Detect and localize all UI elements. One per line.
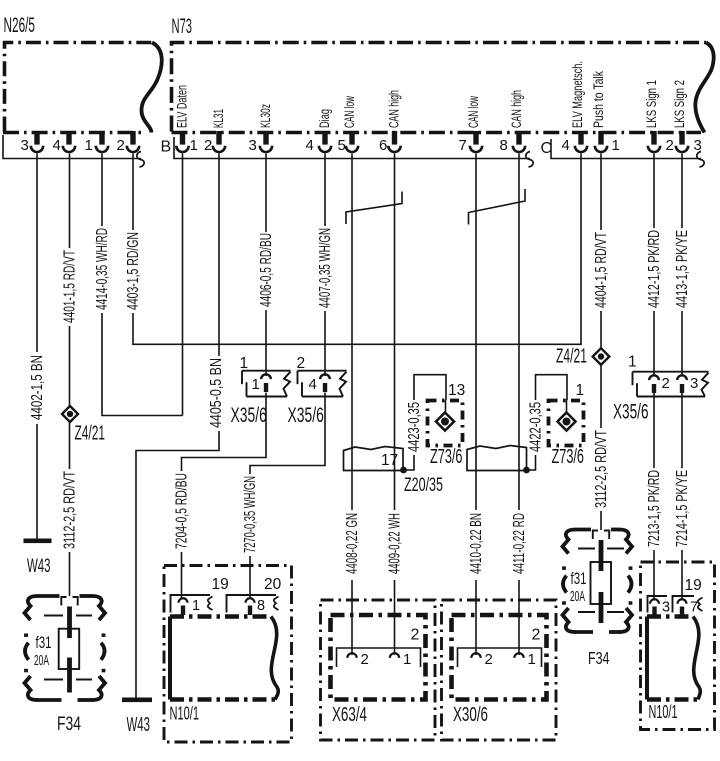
svg-text:19: 19 bbox=[685, 577, 702, 594]
svg-text:2: 2 bbox=[361, 651, 369, 668]
svg-text:4402-1,5 BN: 4402-1,5 BN bbox=[29, 355, 46, 420]
splice Z4/21 bbox=[62, 406, 105, 445]
junction dot Z20/35 right bbox=[523, 467, 530, 474]
svg-text:1: 1 bbox=[192, 598, 200, 614]
N73 pin label CAN high bbox=[509, 90, 524, 128]
N73 pin label CAN low bbox=[466, 96, 481, 128]
svg-text:4408-0,22 GN: 4408-0,22 GN bbox=[344, 513, 361, 574]
N73 pin B6 bbox=[379, 131, 401, 154]
svg-text:Push to Talk: Push to Talk bbox=[591, 71, 606, 128]
svg-text:3112-2,5 RD/VT: 3112-2,5 RD/VT bbox=[593, 430, 610, 508]
svg-text:2: 2 bbox=[666, 137, 674, 154]
svg-text:7: 7 bbox=[690, 600, 698, 616]
svg-text:6: 6 bbox=[379, 137, 387, 154]
svg-text:ELV Daten: ELV Daten bbox=[175, 85, 190, 128]
svg-text:X35/6: X35/6 bbox=[231, 403, 267, 427]
wire 4422-0,35 bbox=[527, 402, 544, 470]
N73 pin label ELV Magnetsch. bbox=[570, 61, 585, 128]
svg-text:4405-0,5 BN: 4405-0,5 BN bbox=[208, 358, 225, 428]
wire 4402-1,5 BN bbox=[29, 154, 46, 540]
wire 4403-1,5 RD/GN bbox=[125, 154, 581, 345]
svg-text:2: 2 bbox=[532, 627, 541, 644]
N73 pin B3 bbox=[249, 131, 273, 154]
wire 4404-1,5 RD/VT bbox=[593, 154, 610, 349]
svg-text:4411-0,22 RD: 4411-0,22 RD bbox=[511, 513, 528, 574]
N73 pin B8 bbox=[500, 131, 526, 154]
svg-text:W43: W43 bbox=[27, 555, 51, 577]
svg-text:8: 8 bbox=[500, 137, 508, 154]
connector X35/6 right bbox=[613, 354, 709, 424]
svg-text:17: 17 bbox=[381, 452, 398, 469]
wire 4406-0,5 RD/BU bbox=[258, 154, 275, 377]
N73 pin B1 bbox=[176, 131, 198, 154]
svg-text:4: 4 bbox=[309, 376, 317, 393]
twisted pair symbol CAN 1 bbox=[346, 192, 402, 225]
svg-text:2: 2 bbox=[662, 375, 670, 392]
N10/1 right socket 19 contacts 3 and 7 bbox=[648, 577, 703, 616]
svg-text:4: 4 bbox=[306, 137, 314, 154]
wire 4414-0,35 WH/RD bbox=[94, 154, 183, 416]
svg-text:1: 1 bbox=[576, 382, 585, 399]
svg-text:f31: f31 bbox=[36, 633, 52, 652]
wire 4407-0,35 WH/GN bbox=[317, 154, 334, 377]
svg-text:CAN low: CAN low bbox=[466, 96, 481, 128]
svg-text:1: 1 bbox=[240, 355, 249, 372]
wire 4405-0,5 BN bbox=[136, 154, 225, 698]
svg-text:4404-1,5 RD/VT: 4404-1,5 RD/VT bbox=[593, 232, 610, 308]
fuse F31 20A left bbox=[34, 597, 92, 693]
svg-text:N10/1: N10/1 bbox=[649, 702, 678, 722]
splice Z73/6 right (1) bbox=[536, 375, 585, 468]
svg-text:4409-0,22 WH: 4409-0,22 WH bbox=[386, 513, 403, 574]
svg-text:CAN high: CAN high bbox=[387, 90, 402, 128]
wire 4410-0,22 BN bbox=[468, 154, 485, 656]
svg-text:4410-0,22 BN: 4410-0,22 BN bbox=[468, 513, 485, 574]
svg-text:4: 4 bbox=[53, 137, 61, 154]
N26/5 pin 4 bbox=[53, 131, 76, 154]
wire 7204-0,5 RD/BU bbox=[173, 393, 266, 600]
twisted pair symbol CAN 2 bbox=[469, 189, 526, 225]
N26/5 pin 2 bbox=[117, 131, 140, 154]
svg-text:KL31: KL31 bbox=[211, 109, 226, 128]
svg-text:B: B bbox=[161, 139, 172, 156]
N73 pin C2 bbox=[648, 131, 674, 154]
label Z20/35 bbox=[404, 474, 443, 496]
svg-text:W43: W43 bbox=[127, 713, 151, 736]
svg-text:3: 3 bbox=[694, 137, 702, 154]
N73 pin label CAN high bbox=[387, 90, 402, 128]
svg-text:4407-0,35 WH/GN: 4407-0,35 WH/GN bbox=[317, 228, 334, 308]
svg-text:X63/4: X63/4 bbox=[332, 703, 367, 726]
svg-text:2: 2 bbox=[204, 137, 212, 154]
N26/5 pin 1 bbox=[85, 131, 109, 154]
N73 pin B7 bbox=[459, 131, 483, 154]
svg-text:4: 4 bbox=[562, 137, 570, 154]
wire 7214-1,5 PK/YE bbox=[674, 393, 691, 599]
svg-text:2: 2 bbox=[117, 137, 125, 154]
shield Z20/35 box 17 bbox=[344, 447, 404, 471]
svg-text:F34: F34 bbox=[57, 713, 81, 735]
wire ELV Daten B1 bbox=[182, 154, 184, 416]
connector X30/6 bbox=[442, 600, 557, 740]
junction dot Z20/35 left bbox=[400, 467, 407, 474]
splice Z4/21 right bbox=[556, 345, 609, 368]
svg-text:7270-0,35 WH/GN: 7270-0,35 WH/GN bbox=[242, 476, 259, 553]
wire 4412-1,5 PK/RD bbox=[646, 154, 663, 377]
svg-text:Z4/21: Z4/21 bbox=[556, 345, 587, 368]
svg-text:N73: N73 bbox=[172, 15, 193, 38]
svg-text:4406-0,5 RD/BU: 4406-0,5 RD/BU bbox=[258, 233, 275, 307]
svg-text:7213-1,5 PK/RD: 7213-1,5 PK/RD bbox=[646, 470, 663, 547]
N73 pin B5 bbox=[338, 131, 359, 154]
N10/1 right inner box bbox=[647, 617, 700, 723]
svg-text:4412-1,5 PK/RD: 4412-1,5 PK/RD bbox=[646, 230, 663, 308]
splice Z73/6 left (13) bbox=[414, 375, 465, 468]
ground W43 left bbox=[24, 539, 52, 578]
connector X35/6 contact 4 bbox=[288, 355, 347, 427]
N10/1 left socket 19 contact 1 bbox=[171, 576, 229, 615]
control unit N26/5 box bbox=[3, 14, 162, 133]
N73 pin label LKS Sign 1 bbox=[644, 80, 659, 128]
svg-text:1: 1 bbox=[403, 651, 411, 668]
svg-text:1: 1 bbox=[252, 376, 260, 393]
wire 3112-2,5 RD/VT right bbox=[593, 365, 610, 530]
N73 pin label Push to Talk bbox=[591, 71, 606, 128]
N73 pin label Diag bbox=[317, 109, 332, 128]
svg-text:2: 2 bbox=[485, 651, 493, 668]
svg-text:3: 3 bbox=[662, 600, 670, 616]
svg-text:3: 3 bbox=[249, 137, 257, 154]
shield Z20/35 box right bbox=[467, 446, 527, 471]
svg-text:1: 1 bbox=[528, 651, 536, 668]
wire 4401-1,5 RD/VT bbox=[61, 154, 78, 406]
svg-text:4414-0,35 WH/RD: 4414-0,35 WH/RD bbox=[94, 228, 111, 310]
N73 connector bracket C bbox=[541, 139, 705, 167]
svg-text:Z73/6: Z73/6 bbox=[552, 445, 585, 468]
svg-text:LKS Sign 2: LKS Sign 2 bbox=[672, 80, 687, 128]
N26/5 connector bracket B-side bbox=[3, 135, 144, 167]
svg-text:Z73/6: Z73/6 bbox=[430, 445, 463, 468]
control unit N73 box bbox=[172, 15, 714, 133]
svg-text:N26/5: N26/5 bbox=[4, 14, 36, 37]
connector X63/4 bbox=[321, 600, 436, 740]
svg-text:13: 13 bbox=[448, 382, 465, 399]
svg-text:20A: 20A bbox=[34, 653, 49, 669]
svg-text:X35/6: X35/6 bbox=[613, 400, 649, 424]
svg-text:KL30z: KL30z bbox=[258, 104, 273, 128]
connector X35/6 contact 1 bbox=[231, 355, 291, 427]
svg-text:7214-1,5 PK/YE: 7214-1,5 PK/YE bbox=[674, 470, 691, 547]
svg-text:f31: f31 bbox=[571, 569, 587, 588]
svg-text:Diag: Diag bbox=[317, 109, 332, 128]
svg-text:1: 1 bbox=[612, 137, 620, 154]
svg-text:4413-1,5 PK/YE: 4413-1,5 PK/YE bbox=[674, 230, 691, 308]
wire 4408-0,22 GN bbox=[344, 154, 361, 656]
N73 pin label LKS Sign 2 bbox=[672, 80, 687, 128]
label F34 right bbox=[588, 648, 610, 668]
ground W43 right bbox=[122, 698, 152, 737]
wire 3112-2,5 RD/VT left bbox=[61, 423, 78, 597]
wire 4409-0,22 WH bbox=[386, 154, 403, 656]
svg-text:4422-0,35: 4422-0,35 bbox=[527, 402, 544, 452]
N73 pin label ELV Daten bbox=[175, 85, 190, 128]
N73 pin label KL31 bbox=[211, 109, 226, 128]
N73 connector bracket B bbox=[161, 137, 534, 167]
svg-text:4423-0,35: 4423-0,35 bbox=[406, 402, 423, 452]
svg-text:1: 1 bbox=[628, 354, 637, 371]
N73 pin label CAN low bbox=[342, 96, 357, 128]
control unit N10/1 left outer box bbox=[164, 566, 292, 743]
wire 4411-0,22 RD bbox=[511, 154, 528, 656]
svg-text:8: 8 bbox=[257, 598, 265, 614]
label F34 left bbox=[57, 713, 81, 735]
N73 pin B2 bbox=[204, 131, 225, 154]
wire 7270-0,35 WH/GN bbox=[242, 393, 325, 600]
N73 pin C1 bbox=[595, 131, 620, 154]
svg-text:20: 20 bbox=[264, 576, 282, 593]
svg-text:N10/1: N10/1 bbox=[170, 703, 200, 724]
svg-text:7204-0,5 RD/BU: 7204-0,5 RD/BU bbox=[173, 473, 190, 549]
svg-text:1: 1 bbox=[190, 137, 198, 154]
svg-text:F34: F34 bbox=[588, 648, 610, 668]
svg-text:ELV Magnetsch.: ELV Magnetsch. bbox=[570, 61, 585, 128]
svg-text:3112-2,5 RD/VT: 3112-2,5 RD/VT bbox=[61, 471, 78, 549]
N73 pin label KL30z bbox=[258, 104, 273, 128]
svg-text:7: 7 bbox=[459, 137, 467, 154]
svg-text:2: 2 bbox=[297, 355, 306, 372]
svg-text:CAN low: CAN low bbox=[342, 96, 357, 128]
svg-text:Z20/35: Z20/35 bbox=[404, 474, 443, 496]
svg-text:X35/6: X35/6 bbox=[288, 403, 324, 427]
N10/1 left inner box bbox=[170, 617, 279, 724]
wire 4423-0,35 bbox=[405, 402, 423, 470]
control unit N10/1 right outer box bbox=[641, 562, 715, 730]
N26/5 pin 3 bbox=[21, 131, 44, 154]
fuse box F34 right outline bbox=[563, 530, 633, 633]
fuse box F34 left outline bbox=[25, 596, 106, 700]
svg-text:5: 5 bbox=[338, 137, 346, 154]
svg-text:1: 1 bbox=[85, 137, 93, 154]
svg-text:CAN high: CAN high bbox=[509, 90, 524, 128]
svg-text:19: 19 bbox=[212, 576, 229, 593]
svg-text:Z4/21: Z4/21 bbox=[75, 422, 106, 445]
svg-text:20A: 20A bbox=[570, 589, 585, 605]
svg-text:3: 3 bbox=[21, 137, 29, 154]
fuse F31 20A right bbox=[570, 531, 624, 624]
svg-text:4403-1,5 RD/GN: 4403-1,5 RD/GN bbox=[125, 232, 142, 310]
svg-text:X30/6: X30/6 bbox=[453, 703, 488, 726]
N10/1 left socket 20 contact 8 bbox=[227, 576, 282, 615]
wire 4413-1,5 PK/YE bbox=[674, 154, 691, 377]
svg-text:3: 3 bbox=[690, 375, 698, 392]
N73 pin C4 bbox=[562, 131, 588, 154]
svg-text:4401-1,5 RD/VT: 4401-1,5 RD/VT bbox=[61, 250, 78, 323]
svg-text:2: 2 bbox=[411, 627, 420, 644]
wire 7213-1,5 PK/RD bbox=[646, 393, 663, 599]
N73 pin C3 bbox=[676, 131, 702, 154]
N73 pin B4 bbox=[306, 131, 332, 154]
svg-text:LKS Sign 1: LKS Sign 1 bbox=[644, 80, 659, 128]
